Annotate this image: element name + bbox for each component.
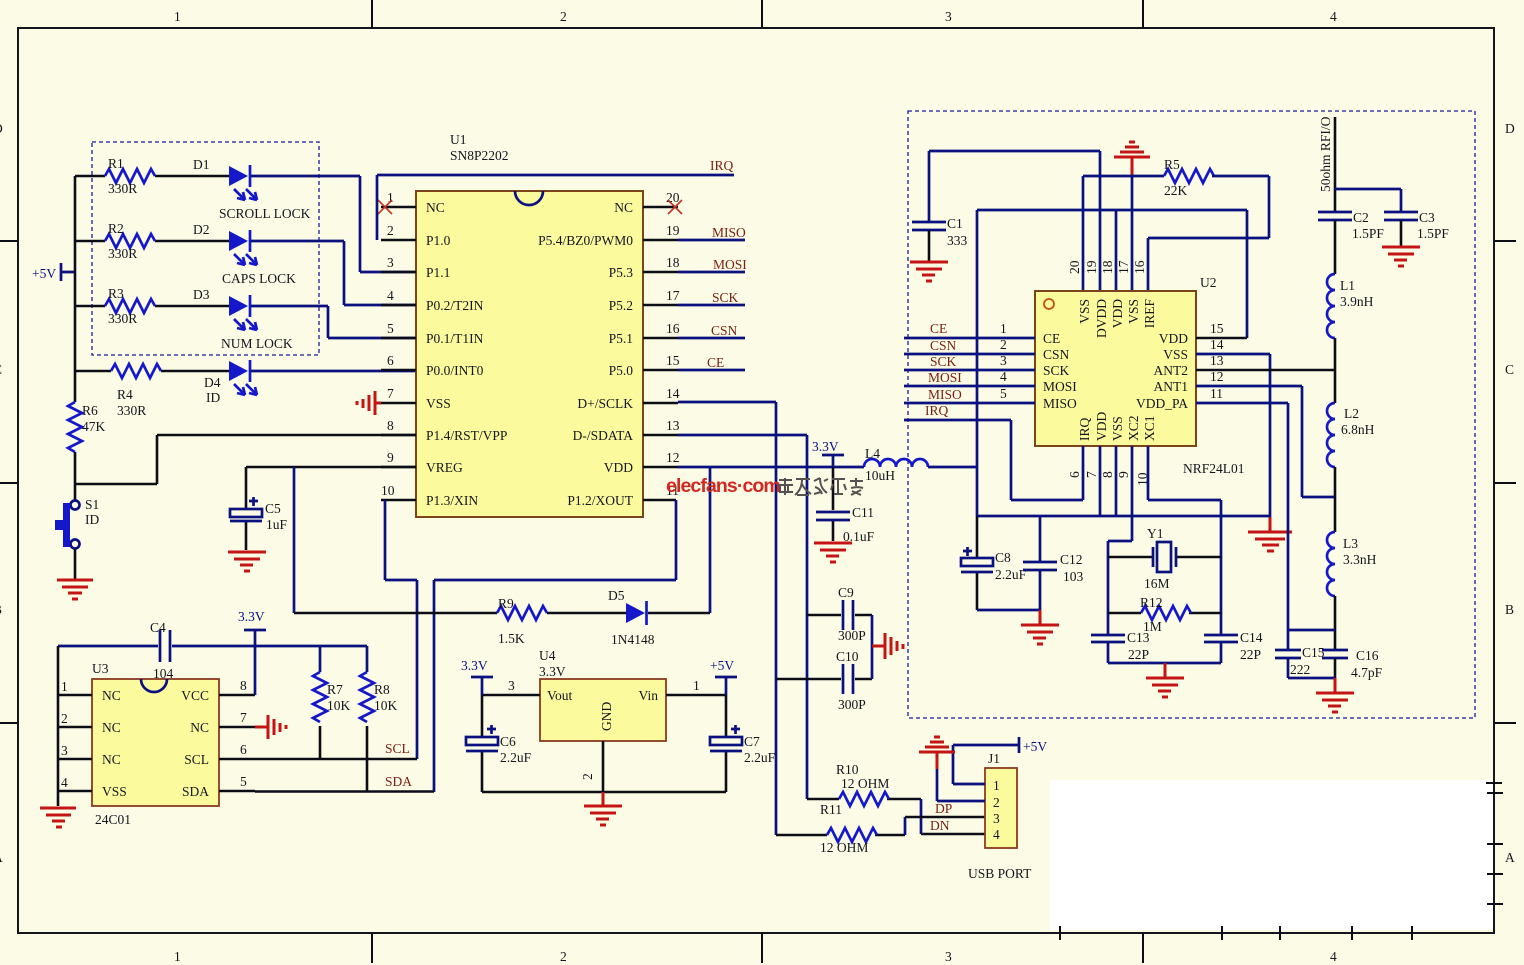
svg-text:CE: CE — [707, 355, 724, 370]
svg-text:VREG: VREG — [426, 460, 463, 475]
svg-text:C15: C15 — [1302, 645, 1325, 660]
inductor L4 — [864, 459, 928, 467]
wire U3 left bus — [57, 646, 60, 806]
svg-text:L1: L1 — [1340, 278, 1355, 293]
svg-text:4: 4 — [1330, 9, 1337, 24]
svg-text:15: 15 — [1210, 321, 1224, 336]
wire L1 to L2 — [1334, 338, 1337, 403]
wire SCL — [255, 758, 417, 761]
wire SCK net — [904, 369, 1035, 372]
svg-text:D+/SCLK: D+/SCLK — [577, 396, 633, 411]
svg-text:NC: NC — [614, 200, 633, 215]
svg-text:18: 18 — [1100, 260, 1115, 274]
svg-text:R5: R5 — [1164, 157, 1180, 172]
switch S1 — [71, 501, 80, 510]
capacitor C14 — [1204, 635, 1238, 642]
svg-text:3: 3 — [387, 255, 394, 270]
bottom-right minor ticks — [1060, 783, 1503, 940]
svg-text:3.3V: 3.3V — [539, 664, 566, 679]
power 3.3V at U4 out — [471, 677, 493, 695]
svg-text:L3: L3 — [1343, 536, 1358, 551]
wire IRQ net from pin2 — [377, 175, 734, 240]
wire U2 pin9 XC2 to crystal — [1108, 446, 1132, 663]
svg-text:3.9nH: 3.9nH — [1340, 294, 1374, 309]
svg-text:R12: R12 — [1140, 595, 1163, 610]
svg-text:1.5PF: 1.5PF — [1352, 226, 1384, 241]
svg-text:XC2: XC2 — [1126, 415, 1141, 441]
svg-text:17: 17 — [1116, 260, 1131, 274]
svg-text:22K: 22K — [1164, 183, 1188, 198]
svg-text:3: 3 — [1000, 353, 1007, 368]
svg-text:4.7pF: 4.7pF — [1351, 665, 1383, 680]
svg-text:1: 1 — [174, 949, 181, 964]
LED D2 — [229, 231, 248, 251]
wire ground to J1 pin2 — [937, 769, 985, 801]
wire D1 to pin3 — [251, 176, 416, 272]
svg-text:1.5PF: 1.5PF — [1417, 226, 1449, 241]
RF section dashed box — [908, 111, 1475, 718]
svg-text:+5V: +5V — [32, 266, 56, 281]
wire VSS bottom rail — [977, 515, 1270, 518]
svg-text:2: 2 — [560, 9, 567, 24]
U2 right inside pin names — [1136, 331, 1188, 411]
svg-text:12 OHM: 12 OHM — [820, 840, 868, 855]
resistor R5 — [1164, 169, 1214, 183]
svg-text:222: 222 — [1290, 662, 1310, 677]
resistor R8 — [366, 646, 369, 672]
svg-text:C: C — [1505, 362, 1514, 377]
ground big right — [1269, 517, 1272, 531]
LED group dashed box — [92, 142, 319, 355]
svg-text:ID: ID — [206, 390, 220, 405]
svg-text:10K: 10K — [374, 698, 398, 713]
U2 bottom inside pin names — [1077, 412, 1157, 441]
svg-text:7: 7 — [387, 386, 394, 401]
svg-text:330R: 330R — [108, 246, 137, 261]
svg-text:R8: R8 — [374, 682, 390, 697]
svg-text:2: 2 — [61, 711, 68, 726]
capacitor C11 — [832, 467, 835, 541]
svg-text:P5.0: P5.0 — [609, 363, 634, 378]
svg-text:3: 3 — [508, 678, 515, 693]
ic U4 regulator body — [540, 679, 666, 741]
svg-text:DN: DN — [930, 818, 950, 833]
svg-text:10uH: 10uH — [865, 468, 895, 483]
svg-text:L2: L2 — [1344, 406, 1359, 421]
wire C15 C16 bottom rail — [1288, 677, 1335, 680]
capacitor C8 — [976, 516, 979, 610]
ground below U3 pin4 — [40, 808, 76, 827]
svg-text:U1: U1 — [450, 132, 467, 147]
ground below C12 — [1039, 610, 1042, 624]
U1 right pin names — [538, 200, 634, 508]
svg-text:18: 18 — [666, 255, 680, 270]
wire MOSI stub pin18 — [678, 271, 745, 274]
svg-text:P0.2/T2IN: P0.2/T2IN — [426, 298, 484, 313]
svg-text:D: D — [1505, 121, 1515, 136]
svg-text:50ohm RFI/O: 50ohm RFI/O — [1318, 116, 1333, 192]
svg-text:P5.3: P5.3 — [609, 265, 634, 280]
wire R10 to USB pin4 — [920, 799, 923, 834]
svg-text:2: 2 — [387, 223, 394, 238]
svg-text:MISO: MISO — [928, 387, 962, 402]
svg-text:VSS: VSS — [1163, 347, 1188, 362]
right border row ticks — [1494, 241, 1516, 723]
svg-text:2: 2 — [560, 949, 567, 964]
svg-text:SDA: SDA — [385, 774, 412, 789]
watermark chinese characters — [778, 478, 863, 495]
svg-text:USB PORT: USB PORT — [968, 866, 1032, 881]
ground below C11 — [814, 543, 852, 562]
svg-text:P1.3/XIN: P1.3/XIN — [426, 493, 478, 508]
LED D3 — [229, 296, 248, 316]
wire U2 top pin 16 — [1147, 238, 1150, 291]
svg-text:12 OHM: 12 OHM — [841, 776, 889, 791]
svg-text:P1.4/RST/VPP: P1.4/RST/VPP — [426, 428, 507, 443]
capacitor C5 — [245, 467, 248, 550]
wire U2 pin10 XC1 to crystal — [1148, 446, 1221, 663]
wire VREG pin9 — [246, 466, 416, 469]
svg-text:SCK: SCK — [1043, 363, 1070, 378]
svg-text:IRQ: IRQ — [925, 403, 949, 418]
wire XIN pin10 to SCL column — [385, 500, 417, 759]
ground right at U3 pin7 — [255, 715, 286, 739]
ic U1 SN8P2202 body — [416, 191, 643, 517]
svg-text:MISO: MISO — [1043, 396, 1077, 411]
svg-text:5: 5 — [387, 321, 394, 336]
wire VDD top rail — [977, 210, 1247, 516]
svg-text:5: 5 — [240, 774, 247, 789]
U1 left pin stubs 1-10 — [381, 207, 416, 500]
svg-text:elecfans·com: elecfans·com — [666, 475, 780, 497]
wire D2 to pin4 — [251, 241, 416, 305]
capacitor C13 — [1091, 635, 1125, 642]
wire U2 top pin 18 — [1115, 210, 1118, 291]
wire CSN net — [904, 353, 1035, 356]
svg-text:C4: C4 — [150, 620, 166, 635]
svg-text:C11: C11 — [852, 505, 874, 520]
svg-text:10K: 10K — [327, 698, 351, 713]
svg-text:SCL: SCL — [385, 741, 410, 756]
wire D5 to VDD rail — [648, 612, 710, 615]
ground below C16 — [1334, 678, 1337, 692]
svg-text:2.2uF: 2.2uF — [744, 750, 776, 765]
wire D-/SDATA pin13 down — [678, 435, 807, 799]
svg-text:1: 1 — [174, 9, 181, 24]
power +5V at U4 in — [715, 677, 737, 695]
svg-text:NC: NC — [102, 688, 121, 703]
svg-text:C1: C1 — [947, 216, 963, 231]
U3 right pin stubs — [219, 695, 255, 791]
svg-text:CE: CE — [930, 321, 947, 336]
svg-text:C8: C8 — [995, 550, 1011, 565]
svg-text:22P: 22P — [1240, 647, 1261, 662]
svg-text:NC: NC — [426, 200, 445, 215]
svg-text:16: 16 — [1132, 260, 1147, 274]
svg-text:A: A — [0, 850, 3, 865]
resistor R1 — [75, 175, 229, 178]
ground below crystal — [1164, 663, 1167, 677]
wire L3 to C16 — [1334, 596, 1337, 650]
inductor L3 — [1327, 532, 1335, 596]
U1 left pin numbers — [381, 190, 395, 498]
svg-text:300P: 300P — [838, 697, 866, 712]
wire branch to C3 — [1335, 189, 1401, 212]
svg-text:CSN: CSN — [1043, 347, 1070, 362]
svg-text:3.3V: 3.3V — [812, 439, 839, 454]
ground below C5 — [228, 552, 266, 571]
connector J1 USB body — [985, 768, 1017, 848]
svg-text:10: 10 — [381, 483, 395, 498]
svg-text:IRQ: IRQ — [1077, 418, 1092, 442]
wire U4 pin3 — [482, 694, 540, 697]
svg-text:2.2uF: 2.2uF — [995, 567, 1027, 582]
wire S1 to ground — [74, 549, 77, 579]
svg-text:D: D — [0, 121, 3, 136]
svg-text:P5.1: P5.1 — [609, 331, 633, 346]
ground above J1 pin2 — [919, 737, 955, 752]
svg-text:IREF: IREF — [1142, 299, 1157, 329]
svg-text:8: 8 — [1100, 471, 1115, 478]
ic U2 NRF24L01 body — [1035, 291, 1196, 446]
svg-text:C10: C10 — [836, 649, 859, 664]
inductor L1 — [1327, 274, 1335, 338]
wire VSS ground row — [1083, 175, 1164, 178]
U3 left pin stubs — [58, 695, 92, 791]
svg-text:P5.4/BZ0/PWM0: P5.4/BZ0/PWM0 — [538, 233, 633, 248]
svg-text:SN8P2202: SN8P2202 — [450, 148, 509, 163]
svg-text:12: 12 — [666, 450, 680, 465]
svg-text:R9: R9 — [498, 596, 514, 611]
wire U2 pin8 VSS down — [1115, 446, 1118, 516]
svg-text:1: 1 — [61, 679, 68, 694]
svg-text:19: 19 — [1084, 260, 1099, 274]
svg-text:2: 2 — [993, 795, 1000, 810]
capacitor C3 — [1384, 212, 1418, 220]
capacitor C10 — [776, 678, 872, 681]
svg-text:C6: C6 — [500, 734, 516, 749]
svg-text:C13: C13 — [1127, 630, 1150, 645]
svg-text:U3: U3 — [92, 661, 109, 676]
svg-text:+5V: +5V — [710, 658, 734, 673]
svg-text:CSN: CSN — [930, 338, 957, 353]
capacitor C6 — [481, 695, 484, 792]
svg-text:VDD: VDD — [1110, 299, 1125, 328]
power 3.3V at C4 rail — [244, 630, 266, 646]
svg-text:ANT2: ANT2 — [1154, 363, 1189, 378]
wire VCC pin8 to 3.3V rail — [254, 646, 257, 695]
wire RST pin8 to S1 — [75, 435, 416, 484]
white image patch bottom-right — [1050, 780, 1494, 930]
svg-text:VDD: VDD — [1094, 412, 1109, 441]
svg-text:6: 6 — [240, 742, 247, 757]
U2 top inside pin names — [1077, 299, 1157, 338]
resistor R3 — [75, 305, 229, 308]
svg-text:A: A — [1505, 850, 1515, 865]
wire U2 pin12 ANT1 — [1196, 386, 1335, 497]
svg-text:330R: 330R — [117, 403, 146, 418]
svg-text:3: 3 — [993, 811, 1000, 826]
wire VDD pin12 to 3.3V rail — [678, 466, 845, 469]
wire D4 to pin6 — [251, 370, 416, 373]
wire CE stub pin15 — [678, 369, 745, 372]
svg-text:13: 13 — [666, 418, 680, 433]
svg-text:J1: J1 — [988, 751, 1000, 766]
wire MOSI net — [904, 385, 1035, 388]
LED D1 — [229, 166, 248, 186]
wire C1 to pin19 — [929, 151, 1100, 221]
svg-text:1: 1 — [693, 678, 700, 693]
wire R11 to USB pin3 — [904, 817, 907, 835]
svg-text:24C01: 24C01 — [95, 812, 131, 827]
svg-text:+5V: +5V — [1023, 739, 1047, 754]
svg-text:3.3nH: 3.3nH — [1343, 552, 1377, 567]
U2 left pin numbers — [1000, 321, 1007, 401]
svg-text:20: 20 — [1067, 260, 1082, 274]
capacitor C1 — [912, 222, 946, 230]
svg-text:C9: C9 — [838, 585, 854, 600]
svg-text:P1.0: P1.0 — [426, 233, 451, 248]
wire antenna column top — [1334, 117, 1337, 212]
svg-text:D1: D1 — [193, 157, 210, 172]
svg-text:VDD_PA: VDD_PA — [1136, 396, 1188, 411]
wire MISO net — [904, 402, 1035, 405]
svg-text:R4: R4 — [117, 387, 133, 402]
svg-text:4: 4 — [61, 775, 68, 790]
svg-text:VSS: VSS — [102, 784, 127, 799]
svg-text:NC: NC — [190, 720, 209, 735]
svg-text:5: 5 — [1000, 386, 1007, 401]
wire C15 link — [1288, 630, 1335, 678]
svg-text:15: 15 — [666, 353, 680, 368]
wire C8 C12 gnd rail — [977, 609, 1040, 612]
wire R5 to IREF pin16 — [1148, 176, 1269, 238]
svg-text:Vout: Vout — [547, 688, 573, 703]
svg-text:NC: NC — [102, 720, 121, 735]
capacitor C9 — [807, 614, 872, 617]
svg-text:L4: L4 — [865, 446, 880, 461]
svg-text:3: 3 — [61, 743, 68, 758]
resistor R10 — [807, 798, 921, 801]
svg-text:4: 4 — [993, 827, 1000, 842]
wire SDA — [255, 790, 434, 793]
svg-text:9: 9 — [387, 450, 394, 465]
svg-text:7: 7 — [240, 710, 247, 725]
svg-text:ID: ID — [85, 512, 99, 527]
crystal Y1 — [1108, 556, 1221, 559]
svg-text:U4: U4 — [539, 648, 556, 663]
svg-text:MOSI: MOSI — [928, 370, 962, 385]
svg-text:VSS: VSS — [1077, 299, 1092, 324]
svg-text:6: 6 — [387, 353, 394, 368]
wire U2 pin7 VDD down — [1099, 446, 1102, 516]
ground right of C9 C10 — [872, 633, 903, 659]
+5V power symbol — [61, 263, 75, 281]
svg-text:17: 17 — [666, 288, 680, 303]
wire bottom rail U4 — [482, 791, 726, 794]
ground below U4 — [584, 792, 622, 825]
svg-text:MOSI: MOSI — [713, 257, 747, 272]
svg-text:3.3V: 3.3V — [461, 658, 488, 673]
top border division ticks — [372, 0, 1143, 28]
svg-text:DP: DP — [935, 801, 952, 816]
svg-text:19: 19 — [666, 223, 680, 238]
svg-text:C7: C7 — [744, 734, 760, 749]
svg-text:8: 8 — [387, 418, 394, 433]
resistor R9 — [294, 612, 626, 615]
svg-text:4: 4 — [1000, 369, 1007, 384]
svg-text:2: 2 — [1000, 337, 1007, 352]
capacitor C7 — [725, 695, 728, 792]
svg-text:CSN: CSN — [711, 323, 738, 338]
svg-text:20: 20 — [666, 190, 680, 205]
svg-text:C3: C3 — [1419, 210, 1435, 225]
svg-text:GND: GND — [599, 702, 614, 731]
svg-text:C14: C14 — [1240, 630, 1263, 645]
wire U4 pin2 gnd — [602, 741, 605, 792]
left border row ticks — [0, 241, 18, 723]
capacitor C4 — [160, 630, 170, 662]
svg-text:3: 3 — [945, 9, 952, 24]
wire U2 pin15 VDD — [1196, 337, 1247, 340]
svg-text:C16: C16 — [1356, 648, 1379, 663]
LED D4 — [229, 361, 248, 381]
wire C4 rail — [58, 645, 367, 648]
wire U2 pin14 VSS to ground — [1196, 354, 1270, 517]
svg-text:1: 1 — [1000, 321, 1007, 336]
U1 right pin stubs 11-20 — [643, 207, 678, 500]
U2 bottom pin numbers — [1067, 471, 1150, 486]
svg-text:103: 103 — [1063, 569, 1084, 584]
svg-text:VDD: VDD — [604, 460, 633, 475]
svg-text:R7: R7 — [327, 682, 343, 697]
svg-text:C12: C12 — [1060, 552, 1083, 567]
svg-text:C2: C2 — [1353, 210, 1369, 225]
svg-text:Y1: Y1 — [1147, 526, 1164, 541]
svg-text:SCL: SCL — [184, 752, 209, 767]
svg-text:47K: 47K — [82, 419, 106, 434]
svg-text:VDD: VDD — [1159, 331, 1188, 346]
ground inverted above U2 — [1114, 142, 1150, 157]
diode D5 1N4148 — [626, 603, 645, 623]
wire U2 pin11 VDD_PA — [1196, 403, 1288, 630]
svg-text:SCROLL LOCK: SCROLL LOCK — [219, 206, 311, 221]
svg-text:R6: R6 — [82, 403, 98, 418]
ground below C1 — [910, 262, 948, 281]
svg-text:B: B — [0, 602, 2, 617]
svg-text:D4: D4 — [204, 375, 221, 390]
svg-text:D5: D5 — [608, 588, 625, 603]
svg-text:6.8nH: 6.8nH — [1341, 422, 1375, 437]
svg-text:9: 9 — [1116, 471, 1131, 478]
svg-text:S1: S1 — [85, 497, 99, 512]
svg-text:VCC: VCC — [181, 688, 209, 703]
svg-text:C5: C5 — [265, 501, 281, 516]
wire U2 pin13 ANT2 — [1196, 369, 1335, 372]
svg-text:NC: NC — [102, 752, 121, 767]
svg-text:VSS: VSS — [1126, 299, 1141, 324]
svg-text:CE: CE — [1043, 331, 1060, 346]
svg-text:VSS: VSS — [1110, 416, 1125, 441]
svg-text:2: 2 — [580, 773, 595, 780]
svg-text:14: 14 — [666, 386, 680, 401]
svg-text:8: 8 — [240, 678, 247, 693]
resistor R6 — [68, 402, 82, 452]
resistor R7 — [319, 646, 322, 672]
svg-text:SDA: SDA — [182, 784, 209, 799]
svg-text:P0.0/INT0: P0.0/INT0 — [426, 363, 484, 378]
svg-text:U2: U2 — [1200, 275, 1217, 290]
